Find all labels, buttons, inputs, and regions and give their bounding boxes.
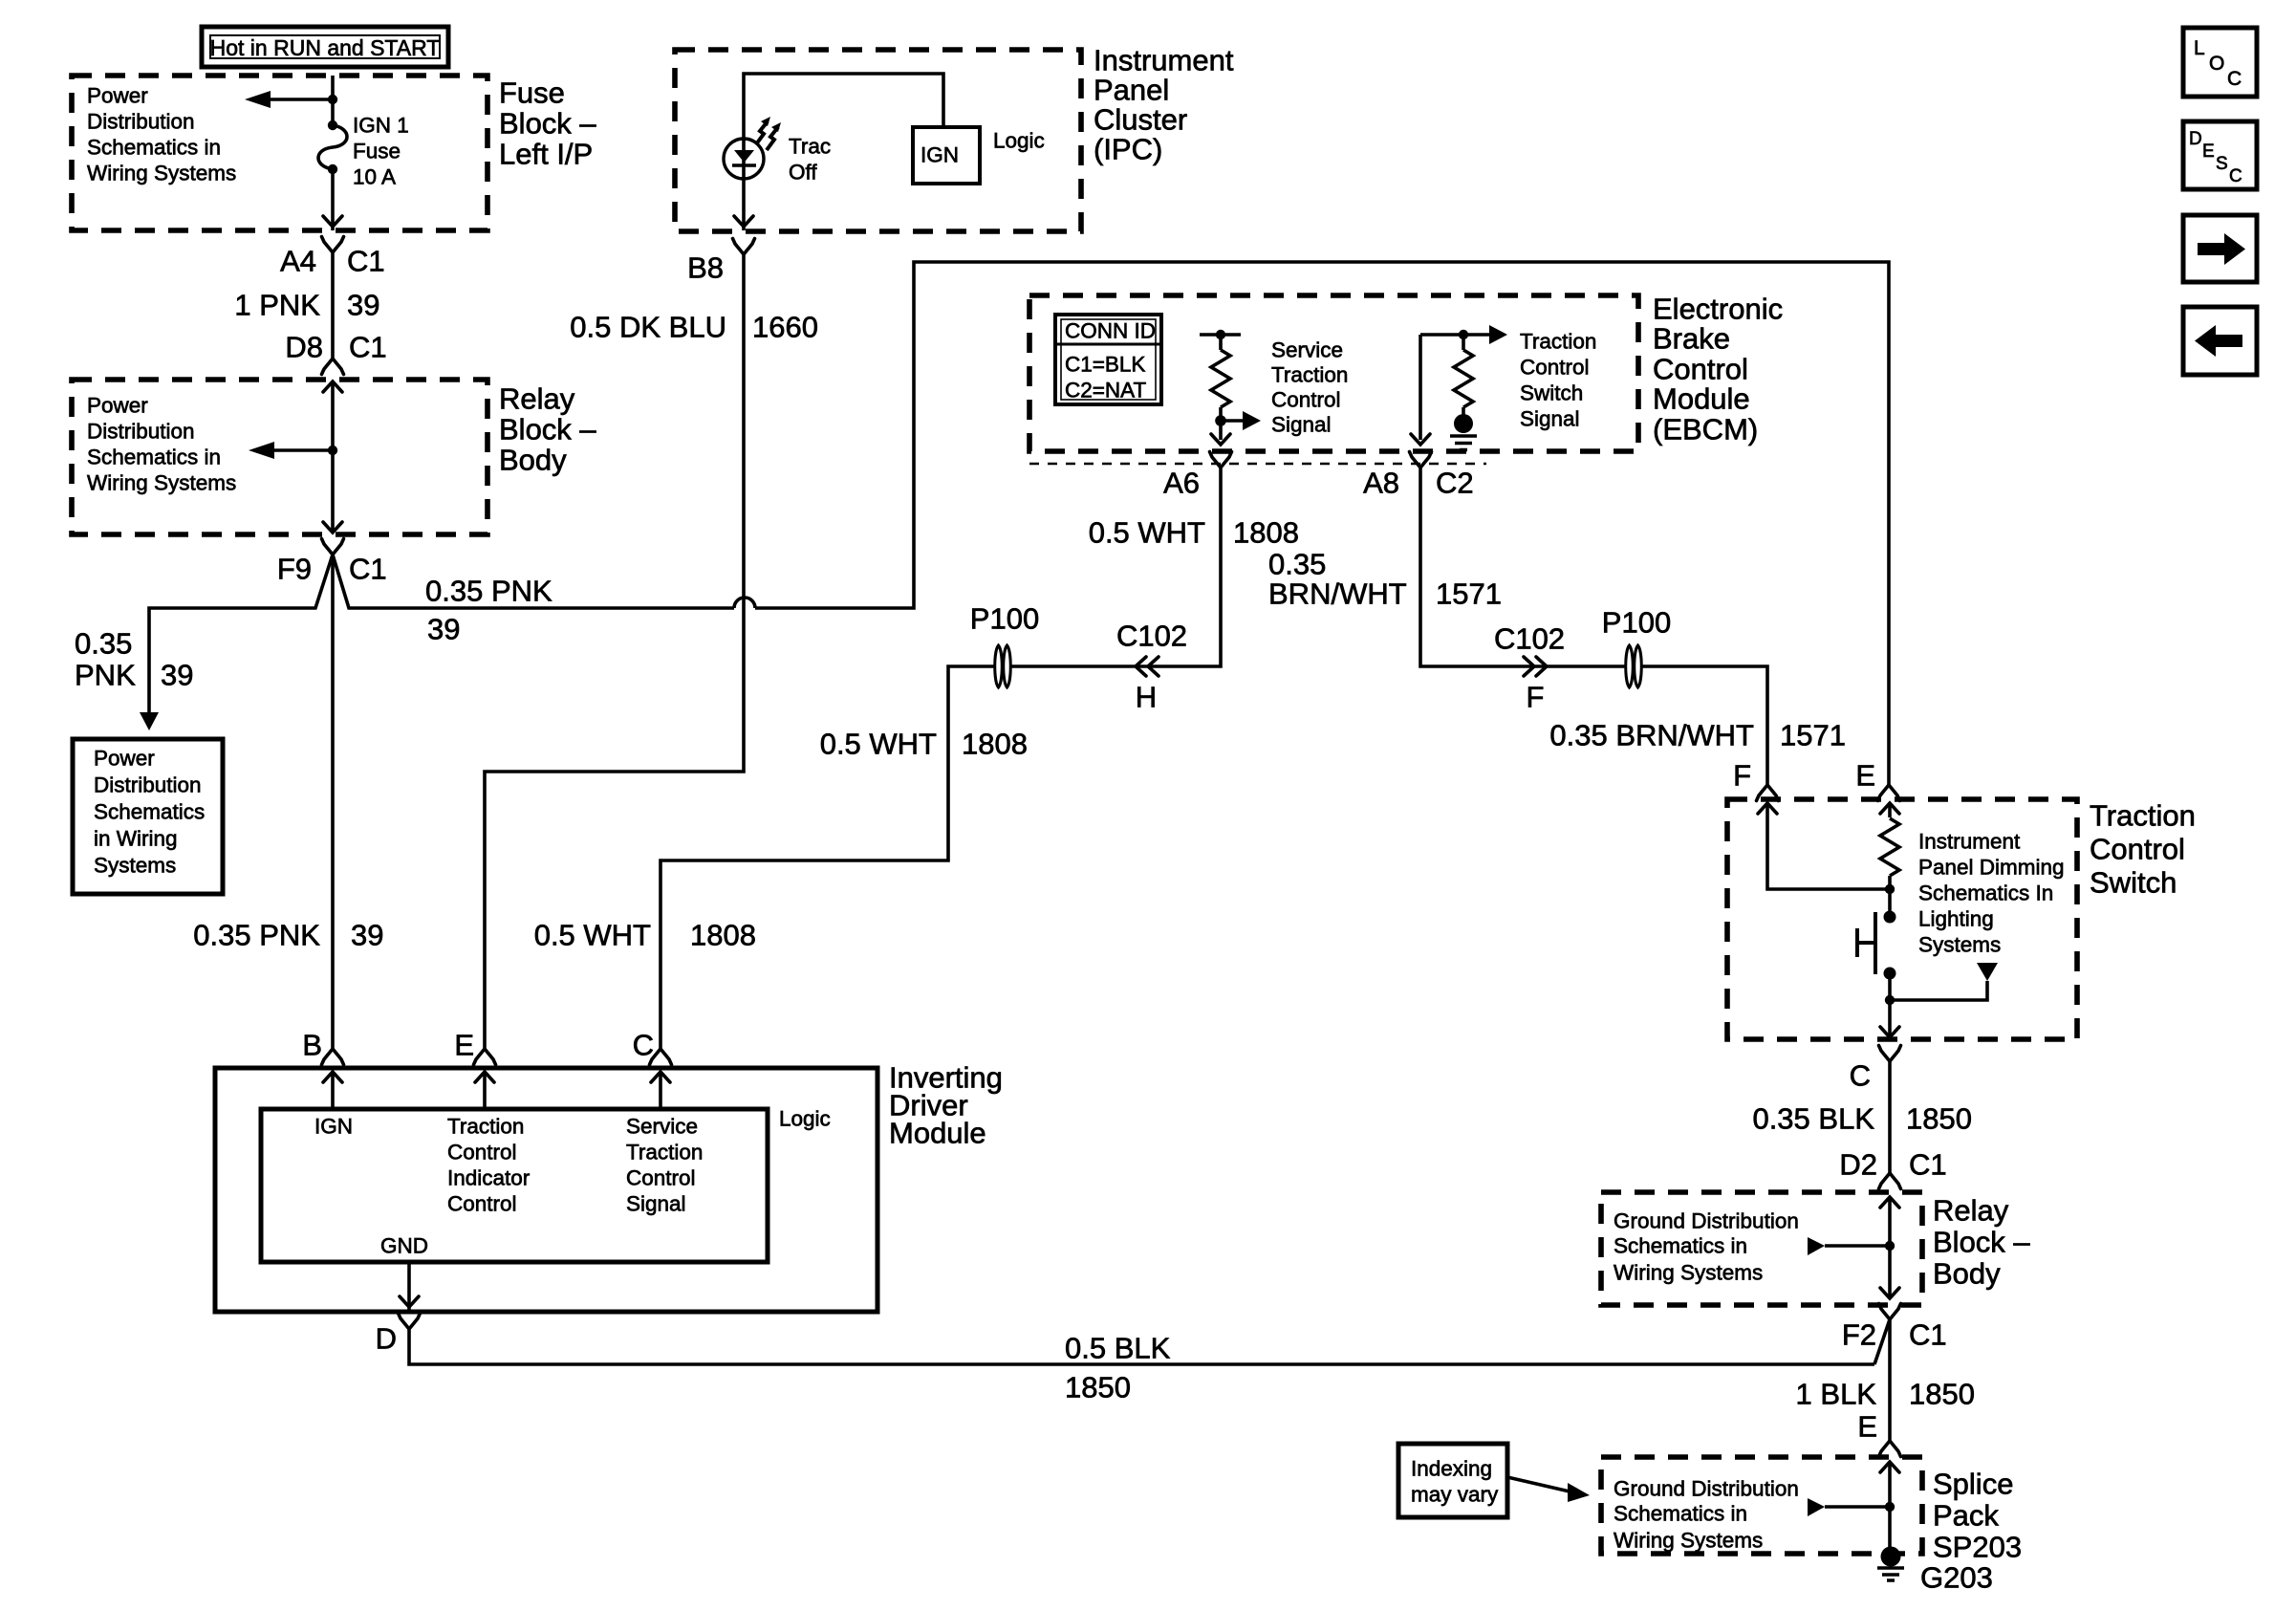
svg-text:Relay: Relay [499,382,575,416]
svg-text:H: H [1136,681,1157,714]
EBCM connector face thin dashed line [1029,463,1486,465]
svg-text:F9: F9 [277,553,312,586]
wire: fuse to connector A4 [331,169,335,230]
IGN box in IPC [913,127,980,184]
svg-text:Service: Service [1271,338,1343,362]
wire: 0.35 BLK 1850 [1888,1061,1892,1173]
wire: through splice pack [1888,1462,1892,1549]
svg-text:Control: Control [2090,833,2185,866]
svg-text:A8: A8 [1363,467,1399,500]
connector pins B E C [322,1049,344,1065]
svg-text:Control: Control [1653,353,1748,386]
svg-text:0.35: 0.35 [1268,548,1326,581]
label: Service Traction Control Signal [1271,338,1348,437]
svg-text:C1=BLK: C1=BLK [1065,353,1145,377]
wire: illumination branch with triangle [1890,981,1987,1000]
svg-text:Control: Control [447,1192,517,1216]
svg-text:Schematics in: Schematics in [87,446,221,469]
connector B8 [733,239,755,255]
svg-text:Block –: Block – [1933,1226,2030,1259]
svg-text:C102: C102 [1116,620,1187,653]
module pin arrows B E C [333,1072,661,1109]
svg-text:Control: Control [447,1141,517,1165]
svg-text:IGN: IGN [314,1115,353,1139]
connector F2/C1 [1879,1304,1901,1320]
svg-text:Cluster: Cluster [1094,103,1187,137]
svg-text:Instrument: Instrument [1918,830,2021,854]
node: junction in fuse block [328,95,337,104]
wire: GND out of logic box [407,1262,411,1312]
labels inside module [314,1115,353,1139]
svg-text:P100: P100 [970,602,1039,636]
pushbutton switch [1857,912,1875,974]
svg-text:0.35 PNK: 0.35 PNK [193,919,320,952]
svg-text:Distribution: Distribution [94,773,202,797]
EBCM dashed box [1029,295,1638,451]
svg-text:CONN ID: CONN ID [1065,319,1156,343]
label: Traction Control Switch [2090,799,2196,900]
svg-text:Hot in RUN and START: Hot in RUN and START [210,35,441,60]
svg-text:C: C [633,1029,654,1062]
svg-text:0.35 BRN/WHT: 0.35 BRN/WHT [1549,719,1754,752]
svg-text:D2: D2 [1839,1148,1877,1182]
svg-text:L: L [2194,37,2205,59]
wire: 1 BLK 1850 [1888,1319,1892,1441]
svg-text:Schematics: Schematics [94,800,205,824]
svg-text:1850: 1850 [1909,1378,1975,1411]
svg-text:Body: Body [499,444,567,477]
svg-text:Logic: Logic [993,129,1045,153]
svg-text:0.5 DK BLU: 0.5 DK BLU [570,311,726,344]
wire: 0.5 DK BLU 1660 from B8 to module pin E [485,254,744,1049]
svg-text:0.5 WHT: 0.5 WHT [534,919,651,952]
svg-text:Control: Control [626,1166,696,1190]
wire: F leg inside switch [1767,803,1890,889]
svg-text:Traction: Traction [447,1115,524,1139]
connector D2/C1 [1879,1173,1901,1189]
svg-text:C1: C1 [349,331,387,364]
svg-text:C: C [1850,1059,1871,1093]
node: junction lamp branch [1885,995,1895,1005]
wire: through lower relay block [1888,1197,1892,1298]
svg-text:Indexing: Indexing [1411,1457,1492,1481]
svg-text:Traction: Traction [1271,363,1348,387]
svg-text:SP203: SP203 [1933,1531,2022,1564]
svg-text:IGN: IGN [921,143,959,167]
switch contact upper [1884,911,1896,924]
svg-text:B8: B8 [687,251,724,285]
svg-text:Schematics In: Schematics In [1918,882,2053,905]
icon: forward arrow button [2183,215,2257,282]
svg-text:Schematics in: Schematics in [1614,1234,1747,1258]
svg-text:Splice: Splice [1933,1468,2013,1501]
svg-text:Schematics in: Schematics in [1614,1502,1747,1526]
CONN ID table [1055,315,1161,404]
wire: E leg into dimming resistor [1880,803,1899,814]
svg-text:(IPC): (IPC) [1094,133,1162,166]
label: Inverting Driver Module [889,1061,1003,1150]
wire: reference branch with left arrow [270,98,333,101]
svg-text:C1: C1 [1909,1318,1947,1352]
wire: 1 PNK 39 [331,252,335,359]
connector E (splice pack) [1879,1441,1901,1457]
svg-text:Electronic: Electronic [1653,293,1783,326]
resistor: traction control switch pull-up with ground [1420,330,1489,415]
svg-text:Traction: Traction [1520,330,1596,354]
svg-text:Schematics in: Schematics in [87,136,221,160]
svg-text:Wiring Systems: Wiring Systems [87,471,236,495]
label: Splice Pack SP203 [1933,1468,2022,1564]
svg-text:1660: 1660 [752,311,818,344]
svg-text:BRN/WHT: BRN/WHT [1268,577,1407,611]
svg-text:Instrument: Instrument [1094,44,1234,77]
svg-text:E: E [1857,1410,1877,1444]
svg-text:Fuse: Fuse [499,76,565,110]
svg-text:0.5 WHT: 0.5 WHT [1089,516,1205,550]
svg-text:Power: Power [87,84,148,108]
label: Hot in RUN and START box [202,27,448,67]
ground (EBCM internal) [1450,414,1477,450]
svg-text:F: F [1733,759,1751,793]
ground G203 [1877,1547,1904,1581]
svg-text:G203: G203 [1920,1561,1993,1595]
svg-text:Signal: Signal [1271,413,1332,437]
wire: through relay block [331,381,335,533]
svg-text:Switch: Switch [1520,381,1583,405]
svg-text:D: D [2189,129,2202,149]
svg-text:Ground Distribution: Ground Distribution [1614,1477,1799,1501]
relay block - body dashed box [72,380,487,534]
svg-text:Power: Power [87,394,148,418]
svg-text:Control: Control [1271,388,1341,412]
label: Electronic Brake Control Module (EBCM) [1653,293,1783,446]
svg-text:Block –: Block – [499,413,596,446]
note: ground distribution schematics (splice pack) [1614,1477,1799,1553]
svg-text:Panel Dimming: Panel Dimming [1918,856,2065,880]
module logic inner box [261,1109,768,1262]
connector D8/C1 [322,359,344,375]
wire: reference branch arrow (lower relay block) [1825,1244,1890,1248]
connector F9/C1 [322,539,344,555]
svg-text:C1: C1 [349,553,387,586]
svg-text:10 A: 10 A [353,165,396,189]
node: junction dimmer/F [1885,884,1895,894]
wire: C2 drop inside EBCM [1419,335,1422,440]
svg-text:39: 39 [347,289,379,322]
label: Traction Control Switch Signal [1520,330,1596,431]
svg-text:Signal: Signal [626,1192,686,1216]
node: junction in relay block [328,446,337,455]
svg-text:Block –: Block – [499,107,596,141]
grommet P100 (right) [1626,645,1642,687]
svg-text:Control: Control [1520,356,1590,380]
svg-text:Lighting: Lighting [1918,907,1994,931]
wire: IPC internal top [744,74,943,139]
svg-text:PNK: PNK [75,659,136,692]
svg-text:F: F [1527,681,1545,714]
wire: ignition feed into fuse [331,76,335,125]
connector A6 [1210,452,1232,468]
svg-text:1850: 1850 [1906,1102,1972,1136]
svg-text:IGN 1: IGN 1 [353,114,409,138]
svg-text:39: 39 [427,613,460,646]
svg-text:Wiring Systems: Wiring Systems [1614,1529,1763,1553]
svg-text:0.35 BLK: 0.35 BLK [1752,1102,1874,1136]
label: Fuse Block - Left I/P [499,76,596,171]
svg-text:F2: F2 [1842,1318,1876,1352]
svg-text:C2: C2 [1436,467,1474,500]
connector E (switch) [1878,785,1900,801]
connector F (switch) [1757,785,1779,801]
connector C (switch) [1879,1046,1901,1062]
label: Instrument Panel Cluster (IPC) [1094,44,1234,166]
svg-text:C: C [2229,166,2242,186]
instrument panel cluster (IPC) dashed box [675,50,1081,231]
label: Trac Off [789,135,831,185]
label: 0.35 PNK 39 (left branch) [75,627,193,692]
svg-text:0.35: 0.35 [75,627,132,661]
svg-text:1 PNK: 1 PNK [234,289,320,322]
switch contact lower [1884,968,1896,980]
node: junction (splice pack) [1885,1502,1895,1512]
fuse block - left I/P dashed box [72,76,487,230]
note: power distribution schematics (fuse block) [87,84,236,185]
arrow: traction control switch signal [1489,325,1507,344]
svg-text:Panel: Panel [1094,74,1169,107]
svg-text:Relay: Relay [1933,1194,2009,1228]
svg-text:Wiring Systems: Wiring Systems [87,162,236,185]
svg-text:D: D [376,1322,397,1356]
svg-text:39: 39 [351,919,383,952]
wire: switch to C exit [1888,973,1892,1037]
svg-text:1571: 1571 [1780,719,1846,752]
resistor: instrument panel dimming [1880,818,1899,876]
svg-text:Logic: Logic [779,1107,831,1131]
svg-text:(EBCM): (EBCM) [1653,413,1758,446]
connector C102 pin F [1524,657,1547,676]
svg-text:Signal: Signal [1520,407,1580,431]
svg-text:Ground Distribution: Ground Distribution [1614,1209,1799,1233]
node: junction (lower relay block) [1885,1241,1895,1251]
svg-text:39: 39 [161,659,193,692]
svg-text:1850: 1850 [1065,1371,1131,1404]
svg-text:C102: C102 [1494,622,1565,656]
svg-text:Off: Off [789,161,817,185]
svg-text:E: E [2202,142,2215,162]
svg-text:1808: 1808 [962,728,1028,761]
power distribution schematics solid box [73,739,223,894]
grommet P100 (left) [995,645,1011,687]
svg-text:C1: C1 [347,245,385,278]
svg-text:1808: 1808 [1233,516,1299,550]
connector A8/C2 [1410,452,1432,468]
connector D [399,1314,421,1330]
label: Relay Block - Body [499,382,596,477]
svg-text:Wiring Systems: Wiring Systems [1614,1261,1763,1285]
indicator lamp Trac Off (LED) [724,139,764,179]
svg-text:A6: A6 [1163,467,1200,500]
label: Instrument Panel Dimming Schematics In Lighting Systems [1918,830,2065,957]
svg-text:Trac: Trac [789,135,831,159]
label: Relay Block - Body (lower) [1933,1194,2030,1291]
svg-text:Switch: Switch [2090,866,2177,900]
wire: reference branch arrow (splice pack) [1825,1505,1890,1509]
splice pack SP203 dashed box [1601,1457,1922,1554]
label: IGN 1 Fuse 10 A [353,114,409,189]
wire: lamp down to B8 [742,179,746,230]
svg-text:Pack: Pack [1933,1499,1999,1533]
wire: reference branch with left arrow (relay block) [273,448,333,452]
lamp rays [756,121,768,144]
svg-text:Service: Service [626,1115,698,1139]
svg-text:1 BLK: 1 BLK [1796,1378,1877,1411]
svg-text:P100: P100 [1602,606,1671,640]
svg-text:Brake: Brake [1653,322,1730,356]
svg-text:B: B [302,1029,322,1062]
svg-text:Power: Power [94,747,155,771]
svg-text:may vary: may vary [1411,1483,1499,1507]
svg-text:C: C [2227,68,2242,90]
svg-text:0.35 PNK: 0.35 PNK [425,575,552,608]
wire: F9 straight down 0.35 PNK 39 to module pin B [331,555,335,1049]
fuse IGN 1 10A [318,120,347,174]
svg-text:D8: D8 [285,331,323,364]
svg-text:E: E [1855,759,1875,793]
svg-text:Body: Body [1933,1257,2001,1291]
svg-text:C1: C1 [1909,1148,1947,1182]
arrow: service traction control signal [1221,419,1244,423]
connector C102 pin H [1136,657,1159,676]
svg-text:Fuse: Fuse [353,140,401,163]
svg-text:0.5 BLK: 0.5 BLK [1065,1332,1171,1365]
svg-text:O: O [2209,53,2224,75]
svg-text:Traction: Traction [2090,799,2196,833]
svg-text:Traction: Traction [626,1141,703,1165]
icon: LOC button [2183,28,2257,97]
callout: Indexing may vary [1398,1444,1590,1517]
relay block - body (lower) dashed box [1601,1192,1922,1305]
wire: F9 split right branch 0.35 PNK 39 feeding traction switch E [333,555,734,608]
wire: F9 split left branch 0.35 PNK to power distribution [149,555,333,712]
icon: DESC button [2183,121,2257,189]
note: ground distribution schematics (relay block) [1614,1209,1799,1285]
svg-text:1808: 1808 [690,919,756,952]
resistor: service traction control pull-up [1200,330,1241,440]
svg-text:Distribution: Distribution [87,110,195,134]
note: power distribution schematics (relay block) [87,394,236,495]
svg-text:Module: Module [1653,382,1750,416]
svg-text:S: S [2216,154,2228,174]
icon: back arrow button [2183,307,2257,375]
svg-text:Systems: Systems [1918,933,2001,957]
svg-text:A4: A4 [280,245,316,278]
connector A4/C1 [322,237,344,253]
wire: 0.5 WHT 1808 from A6 to module pin C [661,468,1221,1049]
svg-text:1571: 1571 [1436,577,1502,611]
svg-text:Module: Module [889,1117,986,1150]
svg-text:in Wiring: in Wiring [94,827,178,851]
inverting driver module outer box [215,1068,877,1312]
svg-text:0.5 WHT: 0.5 WHT [820,728,937,761]
svg-text:Left I/P: Left I/P [499,138,593,171]
svg-text:Systems: Systems [94,854,176,878]
svg-text:C2=NAT: C2=NAT [1065,379,1146,403]
wire: diagonal to ground run [1874,1319,1890,1364]
svg-text:E: E [454,1029,474,1062]
wire: 0.5 BLK 1850 ground run [409,1329,1874,1364]
svg-text:Indicator: Indicator [447,1166,531,1190]
svg-text:GND: GND [380,1234,428,1258]
traction control switch dashed box [1727,799,2077,1039]
wire: 0.35 BRN/WHT 1571 from C2 to switch pin F [1420,468,1767,785]
svg-text:Distribution: Distribution [87,420,195,444]
